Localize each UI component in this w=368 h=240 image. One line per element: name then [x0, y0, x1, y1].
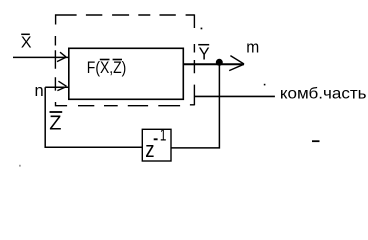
stray minus mark [312, 140, 320, 142]
svg-text:Z: Z [49, 113, 61, 135]
input X arrowhead [57, 52, 66, 61]
output arrowhead [229, 56, 244, 71]
stray speck [19, 165, 21, 167]
stray dot 1 [201, 28, 203, 30]
dashed box (sequential machine boundary) [55, 14, 194, 106]
svg-text:1: 1 [160, 127, 167, 145]
label Z (state vector) [49, 112, 62, 135]
svg-text:X: X [21, 35, 32, 52]
svg-text:F(X,Z): F(X,Z) [87, 59, 127, 77]
feedback wire: delay output to Z input [45, 87, 142, 147]
svg-text:z: z [145, 137, 154, 162]
input Z arrowhead [57, 81, 66, 90]
label X (input vector) [21, 34, 32, 51]
label z^-1 [145, 127, 166, 163]
label F(X,Z) [87, 59, 127, 77]
svg-text:n: n [35, 82, 44, 100]
svg-text:Y: Y [199, 44, 210, 64]
stray dot 2 [264, 84, 266, 86]
input X wire [13, 56, 69, 58]
label Y (output of F) [198, 44, 210, 64]
output Y wire [183, 63, 244, 65]
input Z wire [45, 86, 69, 88]
svg-text:m: m [246, 38, 259, 57]
delay element z^-1 box [142, 129, 171, 161]
block F (combinational logic box) [69, 48, 184, 99]
svg-text:комб.часть: комб.часть [280, 86, 367, 103]
leader line to caption [194, 95, 275, 97]
junction node [216, 59, 223, 66]
feedback wire: junction down to delay input [171, 62, 219, 148]
